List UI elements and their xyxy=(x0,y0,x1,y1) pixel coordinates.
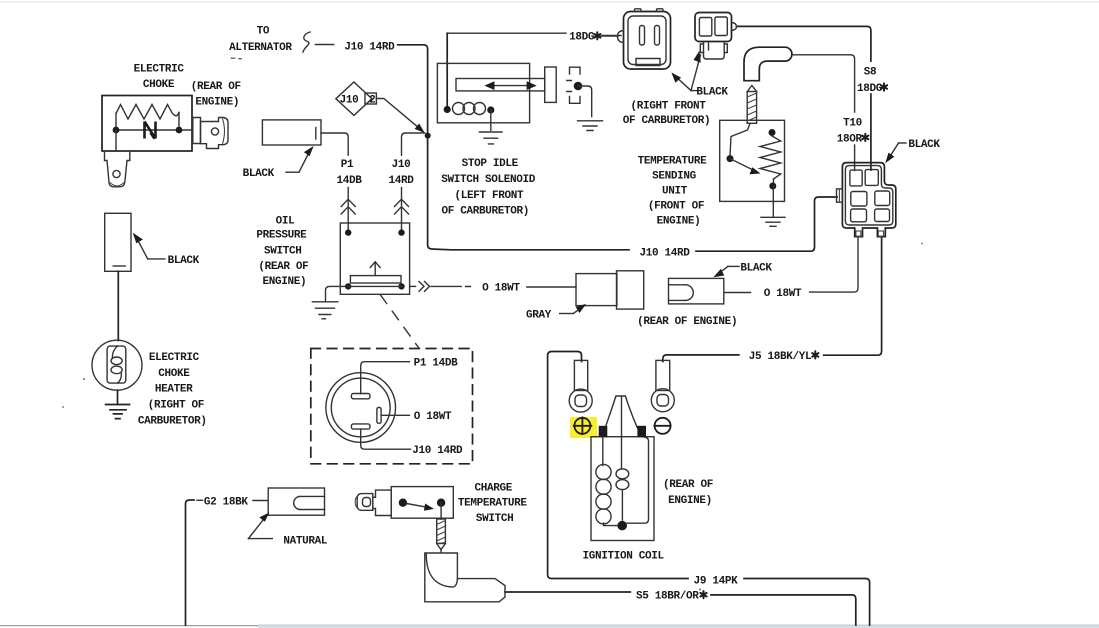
svg-text:SWITCH SOLENOID: SWITCH SOLENOID xyxy=(441,174,536,186)
svg-text:J10 14RD: J10 14RD xyxy=(412,445,463,457)
svg-text:(LEFT FRONT: (LEFT FRONT xyxy=(455,190,525,202)
svg-text:SWITCH: SWITCH xyxy=(264,246,302,258)
svg-text:(REAR OF: (REAR OF xyxy=(191,81,241,93)
svg-text:14DB: 14DB xyxy=(336,175,362,187)
svg-text:18DG: 18DG xyxy=(569,32,595,44)
svg-text:18DG: 18DG xyxy=(857,83,883,95)
svg-text:(RIGHT OF: (RIGHT OF xyxy=(148,400,204,412)
svg-text:2: 2 xyxy=(369,94,375,106)
svg-text:TEMPERATURE: TEMPERATURE xyxy=(458,497,528,509)
svg-text:(REAR OF: (REAR OF xyxy=(258,261,308,273)
svg-text:ELECTRIC: ELECTRIC xyxy=(149,352,200,364)
svg-text:ENGINE): ENGINE) xyxy=(657,215,701,227)
svg-text:TEMPERATURE: TEMPERATURE xyxy=(638,155,708,167)
svg-text:O 18WT: O 18WT xyxy=(482,282,520,294)
svg-text:T10: T10 xyxy=(843,117,862,129)
svg-text:CHOKE: CHOKE xyxy=(143,79,175,91)
svg-text:O 18WT: O 18WT xyxy=(414,411,452,423)
svg-text:TO: TO xyxy=(257,26,270,38)
svg-text:J9 14PK: J9 14PK xyxy=(694,575,739,587)
svg-text:ELECTRIC: ELECTRIC xyxy=(134,64,185,76)
svg-text:S5 18BR/OR: S5 18BR/OR xyxy=(636,591,699,603)
svg-text:J10 14RD: J10 14RD xyxy=(344,42,395,54)
svg-text:BLACK: BLACK xyxy=(908,139,940,151)
svg-text:SWITCH: SWITCH xyxy=(476,513,514,525)
svg-text:STOP IDLE: STOP IDLE xyxy=(462,158,519,170)
svg-text:BLACK: BLACK xyxy=(740,262,772,274)
svg-text:NATURAL: NATURAL xyxy=(283,536,328,548)
svg-text:BLACK: BLACK xyxy=(168,255,200,267)
svg-text:CHOKE: CHOKE xyxy=(158,368,190,380)
svg-text:ENGINE): ENGINE) xyxy=(668,495,712,507)
svg-text:BLACK: BLACK xyxy=(696,87,728,99)
svg-text:J10 14RD: J10 14RD xyxy=(639,248,690,260)
svg-text:CHARGE: CHARGE xyxy=(475,483,513,495)
svg-text:(FRONT OF: (FRONT OF xyxy=(648,200,704,212)
svg-text:G2 18BK: G2 18BK xyxy=(204,496,249,508)
svg-text:CARBURETOR): CARBURETOR) xyxy=(138,415,207,427)
svg-text:J10: J10 xyxy=(340,94,359,106)
svg-text:SENDING: SENDING xyxy=(652,170,697,182)
svg-text:UNIT: UNIT xyxy=(662,185,688,197)
svg-text:OIL: OIL xyxy=(276,216,296,228)
svg-text:ALTERNATOR: ALTERNATOR xyxy=(229,42,292,54)
svg-text:14RD: 14RD xyxy=(388,175,414,187)
svg-text:S8: S8 xyxy=(864,66,877,78)
svg-text:(RIGHT FRONT: (RIGHT FRONT xyxy=(630,101,706,113)
svg-text:PRESSURE: PRESSURE xyxy=(256,230,307,242)
svg-text:BLACK: BLACK xyxy=(243,168,275,180)
svg-text:J5 18BK/YL: J5 18BK/YL xyxy=(749,351,812,363)
svg-text:(REAR OF ENGINE): (REAR OF ENGINE) xyxy=(637,316,737,328)
svg-text:GRAY: GRAY xyxy=(526,310,552,322)
svg-text:OF CARBURETOR): OF CARBURETOR) xyxy=(442,206,530,218)
svg-text:O 18WT: O 18WT xyxy=(764,288,802,300)
svg-text:IGNITION COIL: IGNITION COIL xyxy=(582,551,664,563)
svg-text:J10: J10 xyxy=(392,159,411,171)
svg-text:P1 14DB: P1 14DB xyxy=(414,358,459,370)
svg-text:18OR: 18OR xyxy=(837,133,863,145)
svg-text:(REAR OF: (REAR OF xyxy=(663,479,713,491)
svg-text:ENGINE): ENGINE) xyxy=(195,97,239,109)
svg-text:OF CARBURETOR): OF CARBURETOR) xyxy=(623,115,711,127)
svg-text:HEATER: HEATER xyxy=(155,384,193,396)
svg-text:ENGINE): ENGINE) xyxy=(263,276,307,288)
svg-text:P1: P1 xyxy=(341,159,354,171)
